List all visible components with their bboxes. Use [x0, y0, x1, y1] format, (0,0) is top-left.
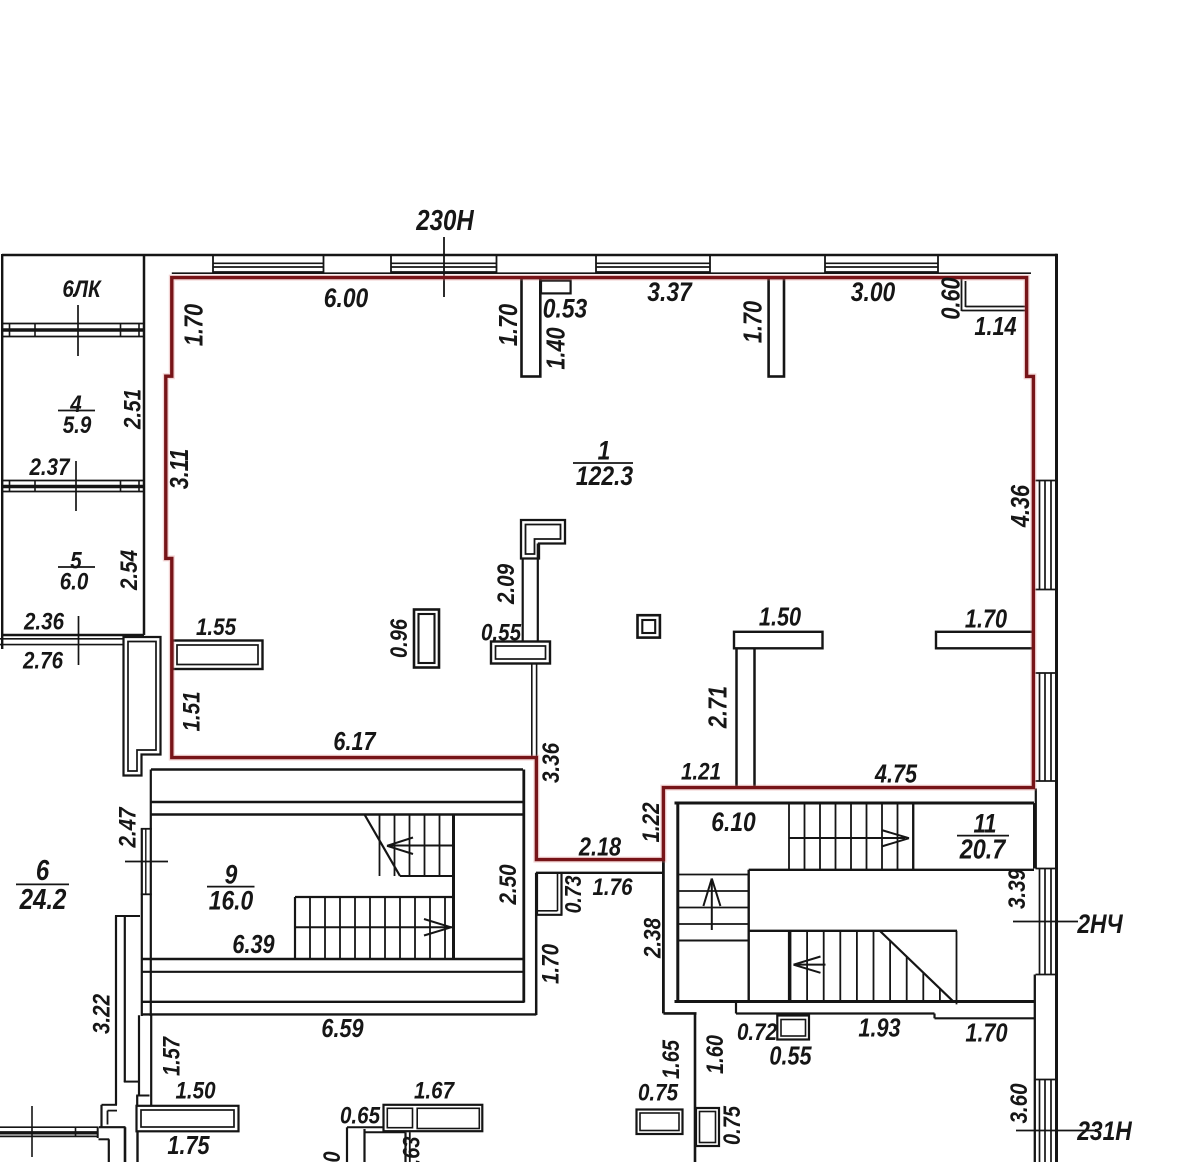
svg-text:2.36: 2.36 [23, 608, 64, 635]
svg-text:1.93: 1.93 [858, 1014, 900, 1043]
svg-text:1.22: 1.22 [637, 802, 664, 842]
svg-text:4.36: 4.36 [1006, 484, 1035, 528]
svg-text:1.70: 1.70 [494, 303, 523, 346]
svg-text:1.57: 1.57 [158, 1035, 185, 1076]
svg-text:20.7: 20.7 [959, 835, 1007, 865]
svg-text:2.54: 2.54 [115, 550, 142, 591]
svg-text:122.3: 122.3 [576, 461, 633, 491]
svg-text:2.76: 2.76 [22, 647, 63, 674]
svg-text:3.37: 3.37 [647, 277, 692, 307]
svg-text:1.70: 1.70 [180, 303, 209, 346]
svg-text:2.37: 2.37 [29, 453, 71, 480]
svg-text:5.9: 5.9 [63, 411, 92, 438]
svg-text:6.0: 6.0 [60, 568, 89, 595]
svg-text:1.40: 1.40 [542, 327, 571, 370]
svg-text:2НЧ: 2НЧ [1076, 909, 1123, 939]
svg-text:0.63: 0.63 [398, 1137, 425, 1162]
svg-text:6.59: 6.59 [321, 1014, 364, 1043]
svg-text:1.50: 1.50 [175, 1077, 215, 1104]
svg-text:231Н: 231Н [1076, 1116, 1132, 1146]
svg-text:0.75: 0.75 [638, 1079, 678, 1106]
svg-text:1.65: 1.65 [657, 1039, 684, 1079]
svg-text:1.75: 1.75 [167, 1131, 210, 1160]
svg-text:1.70: 1.70 [965, 605, 1008, 634]
svg-text:1.51: 1.51 [178, 691, 205, 731]
svg-text:0.55: 0.55 [481, 619, 521, 646]
svg-text:1.76: 1.76 [592, 873, 632, 900]
svg-text:6.00: 6.00 [324, 283, 368, 313]
svg-text:3.22: 3.22 [88, 994, 115, 1034]
svg-text:1.67: 1.67 [414, 1077, 455, 1104]
svg-text:1.14: 1.14 [974, 312, 1016, 341]
svg-text:1.50: 1.50 [759, 603, 802, 632]
svg-text:6.39: 6.39 [232, 930, 275, 959]
svg-text:1.55: 1.55 [196, 613, 236, 640]
svg-text:0.60: 0.60 [937, 277, 966, 320]
svg-text:0.73: 0.73 [560, 875, 586, 913]
svg-text:4.75: 4.75 [874, 760, 918, 789]
svg-text:1.70: 1.70 [739, 300, 768, 343]
svg-text:230Н: 230Н [415, 204, 474, 236]
svg-text:0.96: 0.96 [385, 618, 412, 658]
svg-text:6: 6 [36, 854, 50, 886]
svg-text:6.10: 6.10 [711, 807, 755, 837]
svg-text:3.11: 3.11 [165, 449, 194, 490]
svg-text:3.60: 3.60 [1005, 1083, 1032, 1123]
svg-text:2.09: 2.09 [492, 564, 519, 605]
svg-text:6ЛК: 6ЛК [62, 275, 102, 302]
svg-text:2.51: 2.51 [119, 389, 146, 430]
svg-text:2.50: 2.50 [494, 864, 521, 905]
svg-text:1.21: 1.21 [681, 758, 721, 785]
svg-text:3.36: 3.36 [537, 743, 564, 783]
svg-text:0: 0 [318, 1151, 345, 1162]
svg-text:1.60: 1.60 [701, 1035, 728, 1074]
svg-text:0.65: 0.65 [340, 1102, 380, 1129]
svg-text:0.55: 0.55 [769, 1042, 812, 1071]
svg-text:1.70: 1.70 [537, 944, 564, 984]
svg-text:2.18: 2.18 [578, 833, 622, 862]
svg-text:24.2: 24.2 [19, 883, 67, 915]
svg-text:0.75: 0.75 [718, 1105, 745, 1145]
svg-text:6.17: 6.17 [333, 727, 377, 756]
svg-text:1.70: 1.70 [965, 1019, 1008, 1048]
svg-text:3.39: 3.39 [1003, 869, 1030, 909]
svg-text:0.53: 0.53 [543, 294, 587, 324]
svg-text:2.71: 2.71 [704, 686, 733, 729]
svg-text:2.38: 2.38 [639, 918, 666, 959]
svg-text:2.47: 2.47 [114, 806, 141, 848]
svg-text:16.0: 16.0 [209, 886, 253, 916]
svg-text:3.00: 3.00 [851, 277, 895, 307]
